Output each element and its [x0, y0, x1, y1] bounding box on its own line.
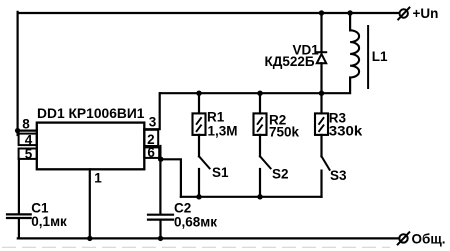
svg-text:1,3M: 1,3M [208, 123, 238, 138]
wire S3 to bus [320, 171, 322, 197]
label S3 [330, 168, 347, 183]
node junction dot S1/bus [196, 194, 201, 199]
wire R3 to S3 [320, 135, 322, 156]
pin number 3 [149, 115, 157, 130]
resistor R1 [193, 113, 206, 134]
label DD1 КР1006ВИ1 [37, 105, 145, 121]
wire pin6 to switch bus [161, 159, 181, 197]
wire L1 upper lead [349, 13, 351, 30]
node junction dot pin8/supply [15, 128, 20, 133]
wire left vertical branch (Vcc to pins 8/4) [17, 12, 19, 135]
label +Un [413, 6, 439, 21]
label S2 [272, 167, 289, 182]
terminal Общ. [398, 232, 410, 244]
label R3 value [329, 111, 363, 139]
svg-text:R1: R1 [207, 110, 225, 125]
label VD1 КД522Б [265, 43, 320, 69]
svg-text:3: 3 [149, 115, 157, 130]
wire top supply rail to +Un [18, 12, 400, 14]
inductor L1 core line [367, 26, 369, 88]
wire S2 to bus [259, 169, 261, 197]
wire upper resistor bus [160, 92, 322, 94]
svg-text:S1: S1 [212, 165, 229, 180]
wire pins 2/6 link down to C2 [159, 146, 161, 213]
wire R1 top lead [198, 93, 200, 113]
resistor R3 [315, 113, 328, 134]
switch S2 blade [260, 156, 271, 168]
svg-text:DD1 КР1006ВИ1: DD1 КР1006ВИ1 [37, 105, 145, 121]
svg-text:КД522Б: КД522Б [265, 54, 315, 69]
label R2 value [269, 112, 300, 139]
inductor L1 [350, 30, 359, 77]
label R1 value [207, 110, 238, 139]
svg-text:S2: S2 [272, 167, 289, 182]
resistor R2 [254, 113, 267, 134]
pin number 2 [147, 132, 155, 147]
wire bottom ground rail [18, 237, 399, 239]
wire R2 to S2 [259, 135, 261, 156]
terminal +Un [398, 8, 409, 20]
wire R2 top lead [259, 93, 261, 113]
pin number 8 [22, 117, 30, 132]
svg-text:330k: 330k [329, 123, 363, 138]
node junction dot L1/top rail [347, 10, 352, 15]
label S1 [212, 165, 229, 180]
wire VD1 upper lead [320, 13, 322, 52]
svg-text:Общ.: Общ. [412, 231, 446, 246]
node junction dot VD1/top rail [319, 10, 324, 15]
wire pin 5 to C1 [18, 159, 20, 213]
pin number 1 [94, 171, 102, 186]
svg-text:L1: L1 [372, 49, 388, 64]
svg-text:750k: 750k [269, 124, 300, 139]
pin number 5 [25, 147, 33, 162]
wire pin 8 stub [18, 130, 37, 132]
node junction dot S2/bus [257, 194, 262, 199]
pin 6 box [144, 147, 159, 158]
node junction dot C2/ground [158, 236, 163, 241]
wire pin 3 output to bus [144, 93, 159, 129]
wire C2 to ground rail [159, 221, 161, 239]
wire lower switch bus [181, 196, 322, 198]
wire R3 top lead [320, 93, 322, 113]
pin number 4 [25, 132, 33, 147]
svg-text:0,1мк: 0,1мк [31, 214, 67, 229]
scan artifact line at bottom [2, 246, 390, 248]
wire C1 to ground rail [18, 219, 20, 238]
switch S1 blade [199, 156, 210, 168]
pin number 6 [147, 145, 155, 160]
pin 4 box [19, 134, 37, 146]
label L1 [372, 49, 388, 64]
wire VD1 lower lead [320, 63, 322, 93]
capacitor C2 [148, 215, 173, 220]
node junction dot bus/R2 [257, 91, 262, 96]
node junction dot pin1/ground [87, 236, 92, 241]
wire S1 to bus [198, 169, 200, 197]
pin 5 box [19, 149, 37, 159]
node junction dot bus/R1 [196, 91, 201, 96]
label Общ. [412, 231, 446, 246]
diode VD1 [317, 52, 326, 63]
IC DD1 КР1006ВИ1 timer body [37, 123, 145, 170]
svg-text:1: 1 [94, 171, 102, 186]
svg-text:S3: S3 [330, 168, 347, 183]
node junction dot bus/VD1/R3/L1 [319, 91, 324, 96]
svg-text:0,68мк: 0,68мк [174, 215, 217, 230]
svg-text:+Un: +Un [413, 6, 439, 21]
wire L1 lower lead to bus [322, 78, 351, 94]
wire R1 to S1 [198, 135, 200, 156]
svg-text:C2: C2 [174, 201, 191, 216]
capacitor C1 [7, 214, 31, 218]
label C1 value [31, 201, 67, 230]
svg-text:5: 5 [25, 147, 33, 162]
label C2 value [174, 201, 217, 230]
svg-text:8: 8 [22, 117, 30, 132]
switch S3 blade [322, 156, 330, 170]
svg-text:6: 6 [147, 145, 155, 160]
svg-text:4: 4 [25, 132, 33, 147]
node junction dot pin6 [158, 157, 163, 162]
pin 2 box [144, 130, 158, 146]
wire pin 1 to ground [89, 169, 91, 238]
